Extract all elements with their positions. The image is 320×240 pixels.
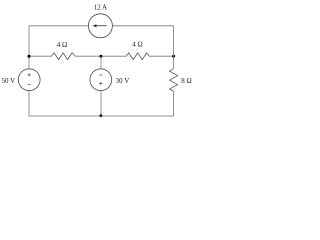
wire middle rail left stub [29, 55, 51, 57]
svg-text:30 V: 30 V [116, 77, 130, 85]
minus sign (V2 top terminal) [99, 74, 102, 76]
voltage source V1 50 V [18, 69, 40, 91]
minus sign (V1 bottom terminal) [28, 83, 31, 85]
svg-text:50 V: 50 V [1, 77, 15, 85]
plus sign (V2 bottom terminal) [99, 82, 102, 85]
node junction dot right (middle rail / right vertical) [172, 55, 175, 58]
node junction dot center (middle rail / 30V branch) [99, 55, 102, 58]
svg-text:4 Ω: 4 Ω [57, 41, 67, 49]
wire top rail left segment [29, 25, 89, 27]
wire right vertical bottom [173, 91, 175, 116]
wire 30V branch bottom [100, 91, 102, 117]
wire right vertical top [173, 26, 175, 69]
svg-text:8 Ω: 8 Ω [181, 77, 191, 85]
wire top rail right segment [112, 25, 173, 27]
wire bottom rail [29, 115, 174, 117]
node junction dot left (middle rail / left vertical) [28, 55, 31, 58]
svg-text:12 A: 12 A [94, 3, 107, 11]
resistor R2 4 ohm [126, 53, 149, 60]
resistor R3 8 ohm [170, 68, 178, 91]
current source I1 12 A [88, 14, 112, 38]
wire middle rail right stub [149, 55, 173, 57]
wire 30V branch top [100, 56, 102, 68]
plus sign (V1 top terminal) [28, 73, 31, 76]
voltage source V2 30 V [90, 69, 112, 91]
resistor R1 4 ohm [51, 53, 75, 60]
wire middle rail center segment [75, 55, 126, 57]
wire left vertical top (top rail to 50V source) [28, 26, 30, 69]
svg-text:4 Ω: 4 Ω [132, 41, 142, 49]
wire left vertical bottom (50V source to bottom rail) [28, 91, 30, 117]
node junction dot bottom (30V branch / bottom rail) [99, 114, 102, 117]
arrow (current direction, pointing left) [96, 25, 107, 27]
